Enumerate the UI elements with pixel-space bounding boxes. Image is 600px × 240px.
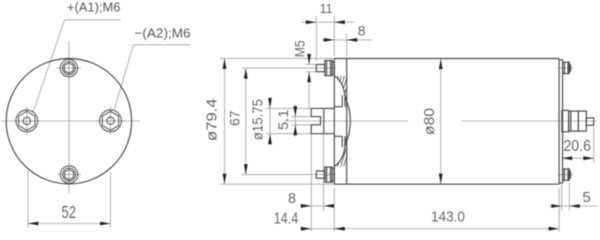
svg-text:+(A1);M6: +(A1);M6 — [67, 0, 121, 15]
svg-text:143.0: 143.0 — [431, 209, 465, 226]
svg-text:67: 67 — [226, 110, 242, 126]
svg-text:ø79.4: ø79.4 — [204, 98, 220, 141]
svg-text:5: 5 — [582, 189, 590, 206]
svg-text:8: 8 — [358, 22, 366, 38]
svg-text:−(A2);M6: −(A2);M6 — [135, 25, 191, 40]
svg-text:5.1: 5.1 — [275, 109, 291, 130]
svg-text:ø80: ø80 — [422, 108, 438, 135]
svg-text:11: 11 — [320, 2, 333, 16]
svg-text:14.4: 14.4 — [274, 210, 299, 227]
svg-text:20.6: 20.6 — [563, 138, 591, 155]
svg-text:ø15.75: ø15.75 — [250, 99, 266, 140]
svg-text:8: 8 — [288, 191, 296, 207]
svg-text:52: 52 — [61, 202, 76, 222]
svg-text:M5: M5 — [293, 40, 308, 57]
